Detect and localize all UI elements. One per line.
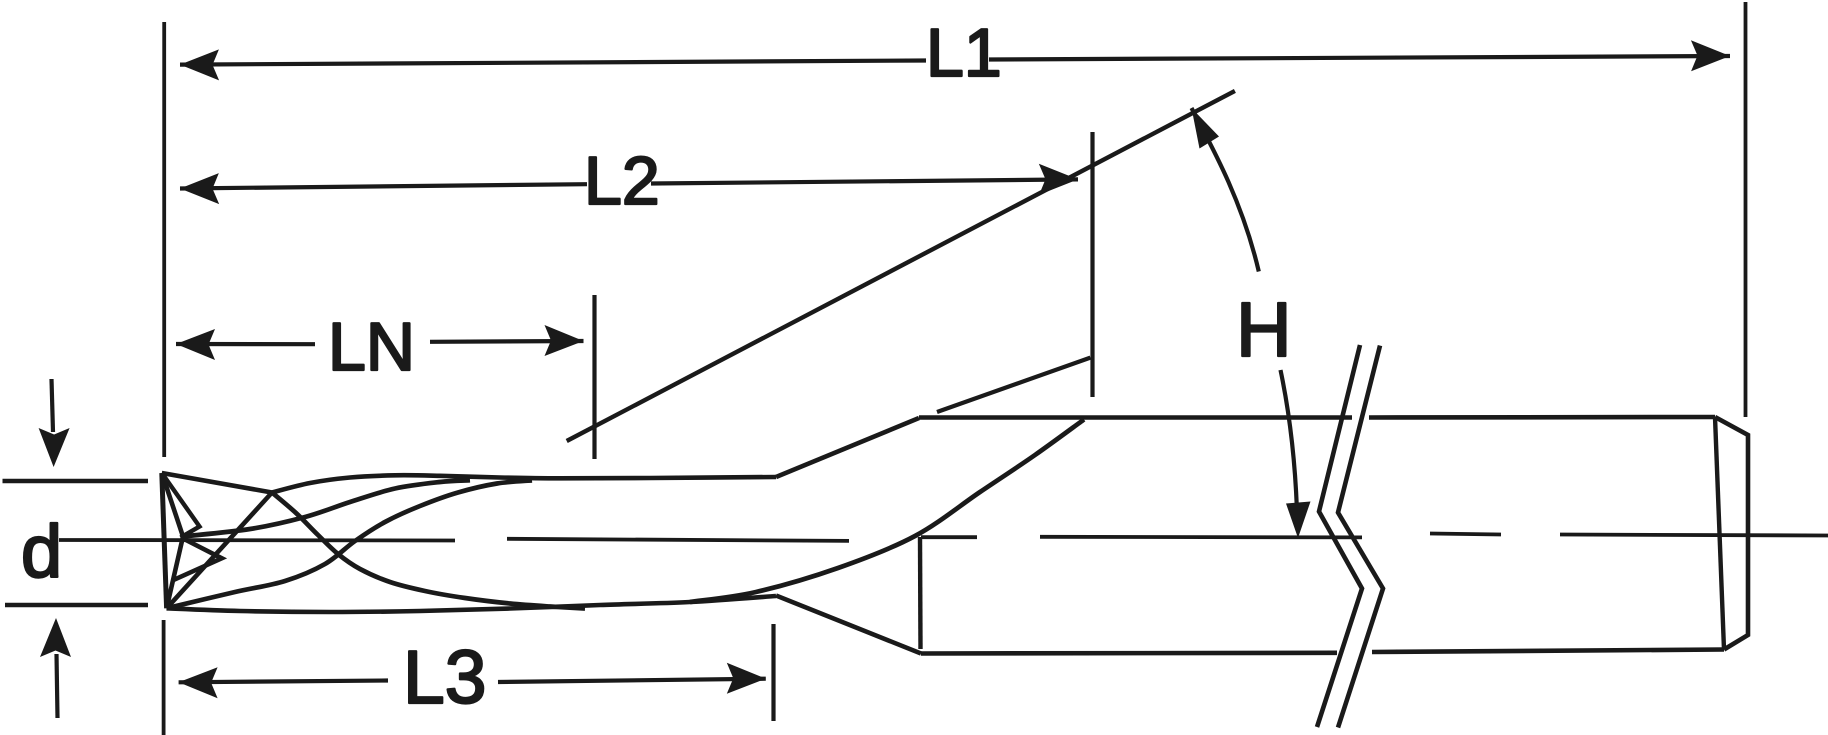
dimension L1 arrow right [1691,40,1730,71]
svg-text:d: d [21,510,62,593]
flute runout curve U [690,420,1084,603]
tool tip gash line (to K1) [167,493,272,609]
svg-text:L1: L1 [926,15,1002,91]
shank right end chamfers and edge [1715,417,1748,650]
shank junction vertical [918,537,923,649]
dimension L1 line [180,56,1730,65]
flute curve Q (lower-left to top) [167,480,533,608]
svg-text:L3: L3 [403,635,486,719]
flute runout diagonal on shank [937,358,1090,412]
shank bottom edge [921,650,1724,654]
dimension L3 arrow right [727,663,766,694]
dimension L2 arrow right [1039,163,1078,194]
taper bottom line [776,596,921,654]
dimension LN arrow left [176,329,215,360]
helix reference diagonal [567,91,1235,441]
extension line left (x=164, from top to bottom) [162,22,166,735]
break symbol right line [1338,346,1383,728]
tool tip upper cutting edge to apex [162,473,183,537]
break symbol left line [1317,345,1362,727]
dimension d top tick [3,479,149,484]
top silhouette of fluted part [162,473,776,493]
extension tick L2 (x=1092.5) [1090,132,1094,397]
bottom silhouette of fluted part [167,596,777,612]
angle H arrow bottom [1286,502,1311,539]
tool tip left edge [162,473,167,608]
centerline (dash-dot axis) [59,534,1828,541]
svg-text:H: H [1236,287,1292,373]
extension tick L3 (x=773.5) [771,624,775,721]
flute curve C1 (apex to top) [183,480,470,536]
extension tick LN (x=594.5) [592,295,596,459]
dimension L1 arrow left [180,49,219,80]
dimension L3 line [179,679,766,683]
dimension L2 arrow left [180,173,219,204]
flute curve P (upper-left to lower-right) [272,493,585,609]
angle H arrow top [1192,108,1220,149]
dimension d bottom tick [5,603,148,608]
shank end face line [1715,417,1724,650]
dimension LN line [176,341,584,344]
svg-text:L2: L2 [584,143,660,219]
dimension LN arrow right [545,325,584,356]
angle H arc upper [1192,108,1259,272]
taper top line [776,418,919,477]
shank top edge [919,415,1715,420]
tool tip secondary edge [162,473,200,538]
dimension L2 line [180,179,1078,188]
dimension L3 arrow left [179,667,218,698]
dimension d up arrow [57,654,58,718]
angle H arc lower [1281,370,1298,530]
extension line right (x=1745.5) [1744,2,1748,417]
svg-text:LN: LN [328,309,415,385]
dimension d down arrow [52,379,54,432]
tool tip lower edge to apex [167,537,183,609]
tool tip lower chevron [173,539,222,580]
